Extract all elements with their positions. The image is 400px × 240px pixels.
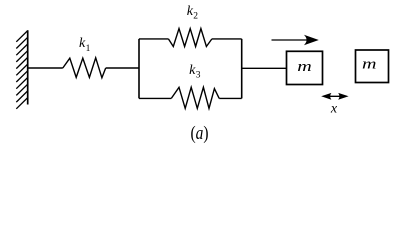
svg-text:(a): (a): [191, 124, 209, 144]
svg-text:1: 1: [86, 44, 91, 54]
wire bottom branch left: [139, 97, 171, 99]
wire spring k1 to parallel combination: [106, 67, 139, 69]
wire parallel combination to mass: [242, 67, 287, 69]
svg-text:m: m: [297, 59, 312, 75]
wire top branch right: [212, 38, 242, 40]
wire top branch left: [139, 38, 168, 40]
spring k1: [63, 58, 106, 78]
node: left junction bar: [138, 39, 140, 99]
spring k3: [171, 87, 219, 108]
wire bottom branch right: [219, 97, 242, 99]
node: right junction bar: [241, 39, 243, 99]
displacement arrow x: [321, 93, 348, 100]
svg-text:3: 3: [196, 71, 201, 81]
mass m (right box): [356, 50, 389, 83]
svg-text:x: x: [330, 102, 338, 117]
svg-text:m: m: [362, 57, 377, 73]
wire wall to spring k1: [28, 67, 63, 69]
wall: [16, 30, 27, 109]
spring k2: [168, 29, 212, 47]
svg-text:2: 2: [193, 12, 198, 22]
mass m (left box): [287, 51, 323, 84]
motion arrow: [272, 35, 319, 45]
